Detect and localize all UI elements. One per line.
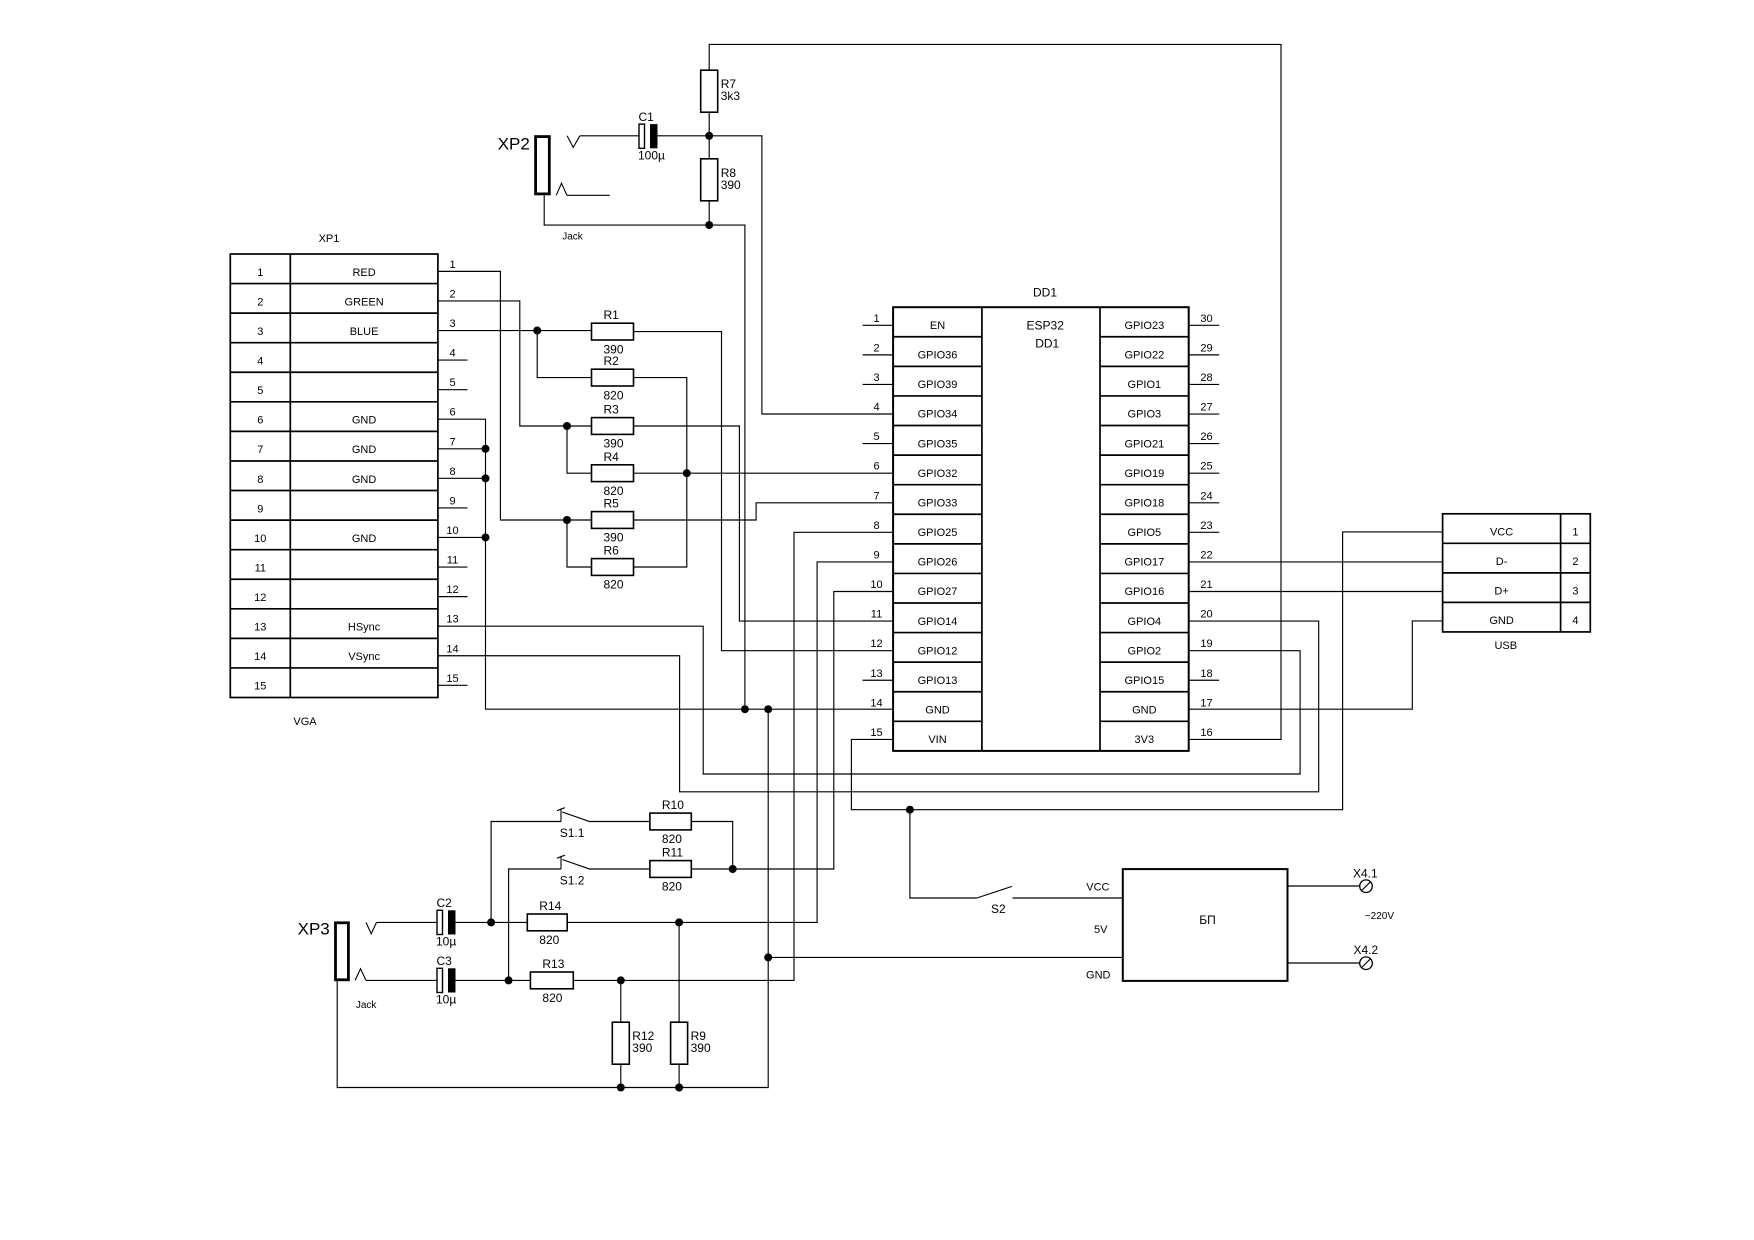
svg-text:19: 19 — [1200, 638, 1212, 650]
wire DD1 GND (pin 17) to USB GND — [1189, 621, 1443, 709]
svg-text:1: 1 — [449, 259, 455, 271]
wire VIN (pin 15) to 5V node and USB VCC — [851, 532, 1442, 810]
svg-text:4: 4 — [1572, 615, 1578, 627]
svg-text:C3: C3 — [437, 954, 453, 968]
DD1 pin 5 — [863, 431, 894, 444]
svg-text:390: 390 — [604, 437, 624, 451]
resistor R7 3k3 — [701, 70, 741, 112]
svg-text:GPIO13: GPIO13 — [918, 675, 958, 687]
svg-text:12: 12 — [254, 592, 266, 604]
svg-text:390: 390 — [721, 178, 741, 192]
svg-text:8: 8 — [449, 466, 455, 478]
svg-text:S1.2: S1.2 — [560, 873, 585, 887]
connector USB table — [1443, 514, 1591, 632]
terminal X4.2 — [1354, 943, 1379, 970]
wire R5 output to GPIO33 (DD1 pin 7) — [634, 503, 894, 520]
XP1 pin 11 stub — [438, 555, 468, 568]
svg-text:820: 820 — [662, 880, 682, 894]
resistor R10 820 — [650, 798, 691, 846]
switch S1.2 — [557, 855, 590, 887]
svg-text:3: 3 — [873, 372, 879, 384]
DD1 pin 21 — [1200, 579, 1212, 591]
svg-text:GPIO32: GPIO32 — [918, 468, 958, 480]
wire 5V node down to switch S2 — [910, 810, 977, 898]
svg-text:USB: USB — [1494, 640, 1517, 652]
node BLUE split — [533, 327, 541, 335]
svg-text:R5: R5 — [604, 497, 620, 511]
DD1 pin 9 — [873, 549, 879, 561]
svg-text:GND: GND — [352, 533, 377, 545]
svg-text:~220V: ~220V — [1365, 911, 1395, 922]
XP2 tip contact — [567, 136, 580, 148]
wire R12 bottom to audio ground — [620, 1064, 622, 1087]
svg-text:RED: RED — [352, 267, 375, 279]
svg-text:VCC: VCC — [1490, 527, 1513, 539]
wire R7 top to 3V3 rail — [709, 44, 1281, 739]
XP1 pin 8 stub — [449, 466, 455, 478]
svg-text:GPIO27: GPIO27 — [918, 586, 958, 598]
wire S1.1 to R10 — [590, 821, 650, 823]
svg-text:3: 3 — [257, 326, 263, 338]
wire BP to mains terminal X4.1 — [1288, 885, 1360, 887]
svg-text:100µ: 100µ — [638, 149, 665, 163]
svg-text:R11: R11 — [662, 846, 683, 860]
DD1 pin 19 — [1200, 638, 1212, 650]
svg-text:GND: GND — [352, 415, 377, 427]
wire R11/R10 output to GPIO27 (DD1 pin 10) — [691, 592, 893, 869]
svg-text:GPIO17: GPIO17 — [1124, 557, 1164, 569]
svg-text:GPIO14: GPIO14 — [918, 616, 958, 628]
svg-text:390: 390 — [691, 1041, 711, 1055]
svg-text:R10: R10 — [662, 798, 684, 812]
svg-text:9: 9 — [449, 495, 455, 507]
resistor R4 820 — [592, 450, 634, 498]
DD1 pin 22 — [1200, 549, 1212, 561]
XP3 ring contact — [355, 969, 366, 981]
svg-text:Jack: Jack — [562, 232, 584, 243]
node C3/S1.2 — [505, 976, 513, 984]
resistor R2 820 — [592, 354, 634, 402]
svg-text:GPIO25: GPIO25 — [918, 527, 958, 539]
node GND pin10 — [482, 533, 490, 541]
svg-text:5: 5 — [449, 377, 455, 389]
XP1 pin 12 stub — [438, 584, 468, 597]
DD1 pin 11 — [871, 609, 882, 621]
node GND pin7 — [482, 445, 490, 453]
wire GREEN node to R4 input — [567, 426, 592, 473]
XP1 pin 5 stub — [438, 377, 468, 390]
wire GPIO16 (pin 21) to USB D+ — [1189, 591, 1443, 593]
svg-text:4: 4 — [257, 355, 263, 367]
wire R4 output to GPIO32 (DD1 pin 6) — [634, 472, 894, 474]
svg-text:14: 14 — [446, 643, 458, 655]
svg-text:390: 390 — [604, 531, 624, 545]
svg-text:C2: C2 — [437, 896, 453, 910]
svg-text:10µ: 10µ — [436, 935, 456, 949]
DD1 pin 20 — [1200, 609, 1212, 621]
resistor R13 820 — [530, 957, 573, 1005]
svg-text:DD1: DD1 — [1035, 337, 1059, 351]
svg-text:5: 5 — [873, 431, 879, 443]
svg-text:GPIO39: GPIO39 — [918, 379, 958, 391]
svg-text:GPIO16: GPIO16 — [1124, 586, 1164, 598]
svg-text:X4.2: X4.2 — [1354, 943, 1379, 957]
svg-text:12: 12 — [446, 584, 458, 596]
svg-text:GREEN: GREEN — [345, 296, 384, 308]
svg-text:15: 15 — [254, 681, 266, 693]
svg-text:R6: R6 — [604, 544, 620, 558]
svg-text:820: 820 — [662, 832, 682, 846]
svg-text:2: 2 — [873, 342, 879, 354]
node R14/R9 — [675, 918, 683, 926]
svg-text:2: 2 — [1572, 556, 1578, 568]
svg-text:27: 27 — [1200, 402, 1212, 414]
wire BP to mains terminal X4.2 — [1288, 962, 1360, 964]
svg-text:GPIO23: GPIO23 — [1124, 320, 1164, 332]
DD1 pin 27 — [1189, 402, 1220, 415]
svg-text:GND: GND — [1489, 615, 1514, 627]
svg-text:1: 1 — [1572, 527, 1578, 539]
XP1 pin 2 stub — [449, 288, 455, 300]
resistor R8 390 — [701, 159, 741, 201]
svg-text:GPIO19: GPIO19 — [1124, 468, 1164, 480]
svg-text:8: 8 — [873, 520, 879, 532]
svg-text:C1: C1 — [639, 110, 655, 124]
wire C1 to node A and GPIO34 (pin 4) — [658, 136, 894, 414]
svg-text:820: 820 — [539, 933, 559, 947]
svg-text:10: 10 — [446, 525, 458, 537]
wire R13 output to GPIO25 (DD1 pin 8) — [573, 532, 893, 980]
svg-text:R13: R13 — [542, 957, 564, 971]
resistor R14 820 — [527, 899, 567, 947]
DD1 pin 8 — [873, 520, 879, 532]
svg-text:6: 6 — [873, 461, 879, 473]
wire XP3 tip to C2 — [377, 921, 438, 923]
svg-text:18: 18 — [1200, 668, 1212, 680]
DD1 pin 14 — [870, 697, 882, 709]
wire R1 output to GPIO12 (DD1 pin 12) — [634, 332, 894, 651]
svg-text:GND: GND — [352, 474, 377, 486]
node ground/BP tee — [764, 953, 772, 961]
wire C2 node up to S1.1 — [491, 822, 561, 923]
wire BLUE node to R2 input — [537, 331, 591, 378]
resistor R12 390 — [612, 1022, 654, 1064]
svg-text:2: 2 — [257, 296, 263, 308]
DD1 pin 12 — [870, 638, 882, 650]
node R13/R12 — [617, 976, 625, 984]
svg-text:9: 9 — [257, 503, 263, 515]
switch S1.1 — [557, 808, 590, 840]
wire R9 bottom to audio ground — [678, 1064, 680, 1087]
svg-text:9: 9 — [873, 549, 879, 561]
svg-text:22: 22 — [1200, 549, 1212, 561]
svg-text:10: 10 — [870, 579, 882, 591]
node R8/XP2 sleeve — [705, 221, 713, 229]
wire C3 to R13 — [456, 979, 531, 981]
svg-text:BLUE: BLUE — [350, 326, 379, 338]
wire XP3 ring to C3 — [366, 979, 437, 981]
svg-text:GPIO26: GPIO26 — [918, 557, 958, 569]
DD1 pin 13 — [863, 668, 894, 681]
DD1 pin 16 — [1200, 727, 1212, 739]
wire R6 output to 820 bus — [634, 473, 687, 567]
DD1 pin 26 — [1189, 431, 1220, 444]
wire C3 node up to S1.2 — [509, 869, 561, 980]
resistor R11 820 — [650, 846, 691, 894]
capacitor C3 10u — [436, 954, 456, 1007]
capacitor C2 10u — [436, 896, 456, 949]
svg-text:DD1: DD1 — [1033, 286, 1057, 300]
wire XP1 pin8 GND — [438, 477, 486, 479]
resistor R6 820 — [592, 544, 634, 592]
svg-text:10µ: 10µ — [436, 993, 456, 1007]
svg-text:10: 10 — [254, 533, 266, 545]
svg-text:12: 12 — [870, 638, 882, 650]
svg-text:13: 13 — [446, 614, 458, 626]
svg-text:4: 4 — [873, 402, 879, 414]
wire XP1 pin10 GND — [438, 536, 486, 538]
wire XP1 pin1 RED to R5 input — [438, 271, 592, 520]
svg-text:GPIO33: GPIO33 — [918, 497, 958, 509]
svg-text:11: 11 — [447, 555, 458, 567]
svg-text:26: 26 — [1200, 431, 1212, 443]
wire VSync (XP1 pin14) to GPIO4 (DD1 pin 20) — [438, 621, 1319, 792]
DD1 pin 17 — [1200, 697, 1212, 709]
svg-text:29: 29 — [1200, 342, 1212, 354]
svg-text:2: 2 — [449, 288, 455, 300]
svg-text:GND: GND — [1132, 705, 1157, 717]
svg-text:17: 17 — [1200, 697, 1212, 709]
svg-text:4: 4 — [449, 348, 455, 360]
svg-text:VGA: VGA — [293, 716, 317, 728]
svg-text:5: 5 — [257, 385, 263, 397]
svg-text:5V: 5V — [1094, 924, 1108, 936]
wire S2 to power supply VCC — [1013, 897, 1123, 899]
svg-text:GPIO1: GPIO1 — [1128, 379, 1162, 391]
svg-text:GPIO36: GPIO36 — [918, 350, 958, 362]
svg-text:15: 15 — [446, 673, 458, 685]
svg-text:GND: GND — [1086, 970, 1111, 982]
XP1 pin 7 stub — [449, 436, 455, 448]
svg-text:13: 13 — [254, 622, 266, 634]
wire R2 output to 820 bus — [634, 378, 687, 474]
svg-text:15: 15 — [870, 727, 882, 739]
wire R8 bottom lead — [708, 201, 710, 225]
XP1 pin 14 stub — [446, 643, 458, 655]
node R12/ground — [617, 1084, 625, 1092]
svg-text:GPIO21: GPIO21 — [1124, 438, 1164, 450]
wire GPIO17 (pin 22) to USB D- — [1189, 561, 1443, 563]
svg-text:GPIO5: GPIO5 — [1128, 527, 1162, 539]
svg-text:GND: GND — [925, 705, 950, 717]
wire R10 output down to R11 output — [691, 822, 732, 870]
svg-text:R14: R14 — [539, 899, 561, 913]
svg-text:30: 30 — [1200, 313, 1212, 325]
wire XP2 tip to C1 — [580, 135, 639, 137]
svg-text:GPIO35: GPIO35 — [918, 438, 958, 450]
svg-text:820: 820 — [604, 388, 624, 402]
IC DD1 ESP32 — [893, 307, 1189, 751]
wire R14 node down to R9 — [678, 922, 680, 1022]
svg-text:GPIO4: GPIO4 — [1128, 616, 1162, 628]
svg-text:XP2: XP2 — [498, 135, 530, 154]
wire RED node to R6 input — [567, 520, 592, 567]
DD1 pin 18 — [1189, 668, 1220, 681]
svg-text:13: 13 — [870, 668, 882, 680]
XP3 tip contact — [366, 922, 377, 933]
wire ground net to BP GND — [768, 956, 1123, 958]
switch S2 — [977, 886, 1012, 916]
svg-text:20: 20 — [1200, 609, 1212, 621]
svg-text:14: 14 — [254, 651, 266, 663]
svg-text:GPIO3: GPIO3 — [1128, 409, 1162, 421]
XP1 pin 4 stub — [438, 348, 468, 361]
svg-text:X4.1: X4.1 — [1353, 866, 1378, 880]
wire XP3 sleeve / audio ground to ground bus — [337, 709, 768, 1087]
resistor R5 390 — [592, 497, 634, 545]
svg-text:GPIO2: GPIO2 — [1128, 645, 1162, 657]
svg-text:R1: R1 — [604, 308, 620, 322]
DD1 pin 7 — [873, 490, 879, 502]
wire S1.2 to R11 — [590, 868, 650, 870]
svg-text:R2: R2 — [604, 354, 620, 368]
svg-text:GPIO18: GPIO18 — [1124, 497, 1164, 509]
svg-text:1: 1 — [873, 313, 879, 325]
XP1 pin 6 stub — [449, 407, 455, 419]
svg-text:7: 7 — [449, 436, 455, 448]
DD1 pin 4 — [873, 402, 879, 414]
svg-text:GND: GND — [352, 444, 377, 456]
DD1 pin 1 — [863, 313, 894, 326]
svg-text:1: 1 — [257, 267, 263, 279]
resistor R1 390 — [592, 308, 634, 356]
wire XP1 GND pins to ground bus and DD1 GND pin 14 — [438, 419, 893, 709]
svg-text:EN: EN — [930, 320, 945, 332]
svg-text:VCC: VCC — [1086, 882, 1109, 894]
wire R14 output to GPIO26 (DD1 pin 9) — [567, 562, 893, 922]
wire XP1 pin7 GND — [438, 448, 486, 450]
svg-text:14: 14 — [870, 697, 882, 709]
wire R7 bottom to R8 top — [708, 112, 710, 159]
svg-text:3V3: 3V3 — [1135, 734, 1155, 746]
wire R8 bottom / XP2 sleeve to ground bus — [544, 195, 745, 709]
XP2 ring contact (open stub) — [556, 183, 609, 195]
wire R3 output to GPIO14 (DD1 pin 11) — [634, 426, 894, 621]
wire R13 node down to R12 — [620, 980, 622, 1022]
DD1 pin 10 — [870, 579, 882, 591]
svg-text:GPIO12: GPIO12 — [918, 645, 958, 657]
svg-text:БП: БП — [1199, 913, 1216, 927]
wire C2 to R14 — [456, 921, 528, 923]
node ground bus right — [764, 705, 772, 713]
DD1 pin 24 — [1189, 490, 1220, 503]
svg-text:6: 6 — [257, 415, 263, 427]
svg-text:11: 11 — [871, 609, 882, 621]
capacitor C1 100u — [638, 110, 665, 163]
node 5V net — [906, 806, 914, 814]
svg-text:8: 8 — [257, 474, 263, 486]
XP1 pin 1 stub — [449, 259, 455, 271]
svg-text:7: 7 — [873, 490, 879, 502]
svg-text:XP1: XP1 — [319, 233, 340, 245]
wire XP1 pin2 GREEN to R3 input — [438, 301, 592, 426]
svg-text:24: 24 — [1200, 490, 1212, 502]
svg-text:28: 28 — [1200, 372, 1212, 384]
node 820 bus — [683, 469, 691, 477]
svg-text:S1.1: S1.1 — [560, 826, 585, 840]
svg-text:HSync: HSync — [348, 622, 381, 634]
svg-text:6: 6 — [449, 407, 455, 419]
svg-text:R3: R3 — [604, 403, 620, 417]
XP1 pin 13 stub — [446, 614, 458, 626]
DD1 pin 25 — [1189, 461, 1220, 474]
svg-text:R4: R4 — [604, 450, 620, 464]
node RED split — [563, 516, 571, 524]
DD1 pin 2 — [863, 342, 894, 355]
connector XP1 (VGA) table — [230, 254, 438, 698]
node GND pin8 — [482, 474, 490, 482]
svg-text:VIN: VIN — [928, 734, 946, 746]
svg-text:11: 11 — [255, 562, 266, 574]
svg-text:3: 3 — [449, 318, 455, 330]
svg-text:XP3: XP3 — [298, 920, 330, 939]
wire HSync (XP1 pin13) to GPIO2 (DD1 pin 19) — [438, 626, 1300, 774]
DD1 pin 6 — [873, 461, 879, 473]
power supply BP box — [1123, 869, 1288, 981]
XP1 pin 10 stub — [446, 525, 458, 537]
wire XP1 pin3 BLUE to R1 input — [438, 330, 592, 332]
node R10/R11 — [729, 865, 737, 873]
svg-text:S2: S2 — [991, 902, 1006, 916]
svg-text:VSync: VSync — [348, 651, 380, 663]
DD1 pin 30 — [1189, 313, 1220, 326]
connector XP2 (jack) — [498, 135, 550, 194]
svg-text:ESP32: ESP32 — [1027, 319, 1065, 333]
DD1 pin 3 — [863, 372, 894, 385]
svg-text:D+: D+ — [1494, 586, 1508, 598]
DD1 pin 29 — [1189, 342, 1220, 355]
node C2/S1.1 — [487, 918, 495, 926]
resistor R9 390 — [671, 1022, 711, 1064]
node R9/ground — [675, 1084, 683, 1092]
node GREEN split — [563, 422, 571, 430]
svg-text:3k3: 3k3 — [721, 89, 741, 103]
DD1 pin 15 — [870, 727, 882, 739]
DD1 pin 23 — [1189, 520, 1220, 533]
svg-text:390: 390 — [632, 1041, 652, 1055]
svg-text:Jack: Jack — [356, 1000, 378, 1011]
terminal X4.1 — [1353, 866, 1378, 892]
node ground bus left — [741, 705, 749, 713]
DD1 pin 28 — [1189, 372, 1220, 385]
svg-text:GPIO34: GPIO34 — [918, 409, 958, 421]
svg-text:3: 3 — [1572, 586, 1578, 598]
svg-text:25: 25 — [1200, 461, 1212, 473]
svg-text:820: 820 — [542, 991, 562, 1005]
svg-text:7: 7 — [257, 444, 263, 456]
node C1/R7/R8 — [705, 132, 713, 140]
svg-text:820: 820 — [604, 578, 624, 592]
svg-text:21: 21 — [1200, 579, 1212, 591]
svg-text:GPIO22: GPIO22 — [1124, 350, 1164, 362]
resistor R3 390 — [592, 403, 634, 451]
XP1 pin 15 stub — [438, 673, 468, 686]
XP1 pin 3 stub — [449, 318, 455, 330]
svg-text:23: 23 — [1200, 520, 1212, 532]
XP1 pin 9 stub — [438, 495, 468, 508]
connector XP3 (jack) — [298, 920, 349, 980]
svg-text:GPIO15: GPIO15 — [1124, 675, 1164, 687]
